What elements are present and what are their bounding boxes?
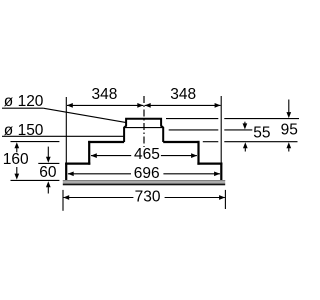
step shoulder right xyxy=(197,163,222,165)
dim 95: upper arrow (down) xyxy=(286,112,291,118)
svg-text:60: 60 xyxy=(39,164,57,181)
ext line y=141.7 (hood top level) right segment xyxy=(224,141,297,143)
ø 150 leader line xyxy=(2,135,124,137)
svg-text:55: 55 xyxy=(253,125,270,142)
ext line y=141.7 (hood top level) mid segment xyxy=(203,141,219,143)
dim 95: upper arrow tail xyxy=(288,100,290,114)
dim 696: arrow left xyxy=(68,171,74,176)
dim 60: lower arrow (up) xyxy=(46,181,51,187)
696 box left side xyxy=(65,163,67,181)
dim 55: upper arrow (down) xyxy=(243,123,248,129)
ø 120 leader diagonal xyxy=(43,108,126,122)
svg-text:160: 160 xyxy=(3,151,29,168)
bottom plate top edge xyxy=(63,180,225,182)
dim 730: right extension line xyxy=(224,190,226,209)
bottom plate body xyxy=(63,180,225,183)
ext line y=118.6 (95 top) left segment xyxy=(166,118,218,120)
centerline xyxy=(143,96,145,147)
svg-text:465: 465 xyxy=(134,146,160,163)
dim 60: top extension line xyxy=(38,162,59,164)
dim 348 left: line xyxy=(67,104,143,106)
dim 730: line right segment xyxy=(165,197,225,199)
extension line left (x=66) xyxy=(65,97,67,163)
dim 60: upper arrow tail xyxy=(47,147,49,158)
dim 465: arrow left xyxy=(91,153,97,158)
hood top right segment xyxy=(163,141,199,143)
duct spigot outline xyxy=(124,119,163,142)
dim 60: lower arrow tail xyxy=(47,186,49,193)
dim 696: line right segment xyxy=(163,173,220,175)
svg-text:ø 120: ø 120 xyxy=(4,93,44,110)
dim 730: left extension line xyxy=(62,190,64,211)
dim 696: arrow right xyxy=(214,171,220,176)
dim 160: upper arrow tail xyxy=(16,147,18,152)
hood top left segment xyxy=(88,141,124,143)
dim 730: line left segment xyxy=(63,197,133,199)
bottom plate bottom edge xyxy=(63,184,225,186)
465 box left side xyxy=(88,141,90,165)
dim 465: line right segment xyxy=(161,155,197,157)
dim 465: line left segment xyxy=(91,155,131,157)
svg-text:348: 348 xyxy=(170,86,196,103)
dim 696: line left segment xyxy=(68,173,131,175)
dim 730: arrow right xyxy=(219,195,225,200)
step shoulder left xyxy=(65,163,90,165)
dim 348 right: arrow left xyxy=(145,103,151,108)
dim 465: arrow right xyxy=(191,153,197,158)
dim 160: lower arrow tail xyxy=(16,167,18,175)
dim 95: lower arrow tail xyxy=(288,147,290,151)
dim 160: upper arrow (up) xyxy=(14,142,19,148)
dim 348 right: arrow right xyxy=(215,103,221,108)
696 box right side xyxy=(220,163,222,181)
svg-text:696: 696 xyxy=(134,165,160,182)
dim 160: top extension line xyxy=(11,141,60,143)
dim 55: lower arrow tail xyxy=(244,147,246,151)
ext line y=130 (55 top) left segment xyxy=(169,129,219,131)
dim 60: upper arrow (down) xyxy=(46,157,51,163)
dim 55: upper arrow tail xyxy=(244,122,246,125)
ext line y=118.6 (95 top) right segment xyxy=(224,118,299,120)
465 box right side xyxy=(197,141,199,165)
svg-text:348: 348 xyxy=(92,86,118,103)
dim 348 left: arrow right xyxy=(137,103,143,108)
ext line y=130 (55 top) right segment xyxy=(224,129,252,131)
dim 95: lower arrow (up) xyxy=(286,142,291,148)
dim 348 left: arrow left xyxy=(67,103,73,108)
dim 160: bottom extension line xyxy=(11,179,60,181)
dim 160: lower arrow (down) xyxy=(14,174,19,180)
dim 55: lower arrow (up) xyxy=(243,142,248,148)
dim 730: arrow left xyxy=(63,195,69,200)
svg-text:730: 730 xyxy=(135,188,161,205)
extension line right (x=221) xyxy=(220,96,222,163)
dim 348 right: line xyxy=(145,104,221,106)
spigot seam line xyxy=(124,127,162,129)
svg-text:95: 95 xyxy=(281,122,298,139)
ø 120 leader underline xyxy=(2,107,43,109)
